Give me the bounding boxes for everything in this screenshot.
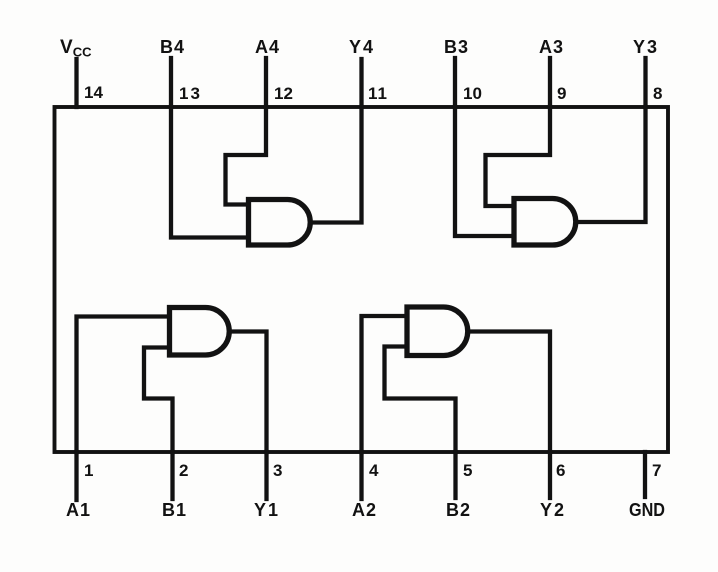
AND gate D (pins 12,13 -> 11), top-left [249,200,311,246]
svg-text:Y4: Y4 [349,37,375,57]
svg-text:B3: B3 [444,37,469,57]
svg-text:5: 5 [463,461,472,480]
svg-text:A2: A2 [352,500,377,520]
svg-text:A4: A4 [255,37,280,57]
svg-text:7: 7 [652,461,661,480]
pin 10 (B3) stub [453,58,457,107]
svg-text:2: 2 [179,461,188,480]
pin 11 (Y4) stub [359,59,363,107]
svg-text:A1: A1 [66,500,91,520]
svg-text:B2: B2 [446,500,471,520]
svg-text:6: 6 [556,461,565,480]
svg-text:9: 9 [557,84,566,103]
pin 2 (B1) stub [170,452,174,499]
AND gate A (pins 1,2 -> 3), bottom-left [170,308,230,356]
pin 3 (Y1) stub [264,452,268,499]
pin 7 (GND) stub [643,452,647,497]
svg-text:4: 4 [369,461,379,480]
wire gate D output to Y4 (pin 11) [310,107,362,223]
pin 14 (VCC) stub [74,59,78,107]
svg-text:12: 12 [274,84,293,103]
pin 12 (A4) stub [264,58,268,107]
svg-text:1: 1 [84,461,93,480]
svg-text:11: 11 [368,84,388,103]
AND gate C (pins 9,10 -> 8), top-right [514,199,576,246]
wire gate C output to Y3 (pin 8) [576,107,646,222]
wire A4 (pin 12) to gate D upper input [226,107,267,205]
svg-text:8: 8 [653,84,662,103]
wire B3 (pin 10) to gate C lower input [455,107,514,236]
svg-text:14: 14 [84,83,103,102]
wire gate A output to Y1 (pin 3) [230,332,267,453]
svg-text:B4: B4 [160,37,185,57]
svg-text:B1: B1 [162,500,187,520]
svg-text:Y2: Y2 [540,500,566,520]
wire A1 (pin 1) to gate A upper input [77,317,170,453]
pin 5 (B2) stub [453,452,457,498]
pin 4 (A2) stub [359,452,363,499]
svg-text:Y1: Y1 [254,500,280,520]
svg-text:13: 13 [179,84,202,103]
AND gate B (pins 4,5 -> 6), bottom-right [407,307,468,356]
pin 9 (A3) stub [548,58,552,107]
svg-text:GND: GND [629,500,665,520]
svg-text:10: 10 [463,84,482,103]
IC package outline U1 [55,107,669,452]
svg-text:A3: A3 [539,37,564,57]
wire gate B output to Y2 (pin 6) [468,332,550,453]
svg-text:Y3: Y3 [633,37,659,57]
wire B1 (pin 2) to gate A lower input [144,348,173,453]
wire B2 (pin 5) to gate B lower input [385,347,456,453]
wire A2 (pin 4) to gate B upper input [362,316,408,452]
wire A3 (pin 9) to gate C upper input [486,107,551,206]
pin 1 (A1) stub [74,452,78,500]
pin 13 (B4) stub [169,58,173,107]
svg-text:3: 3 [273,461,282,480]
pin 6 (Y2) stub [548,452,552,498]
pin 8 (Y3) stub [643,58,647,107]
wire B4 (pin 13) to gate D lower input [171,107,249,238]
